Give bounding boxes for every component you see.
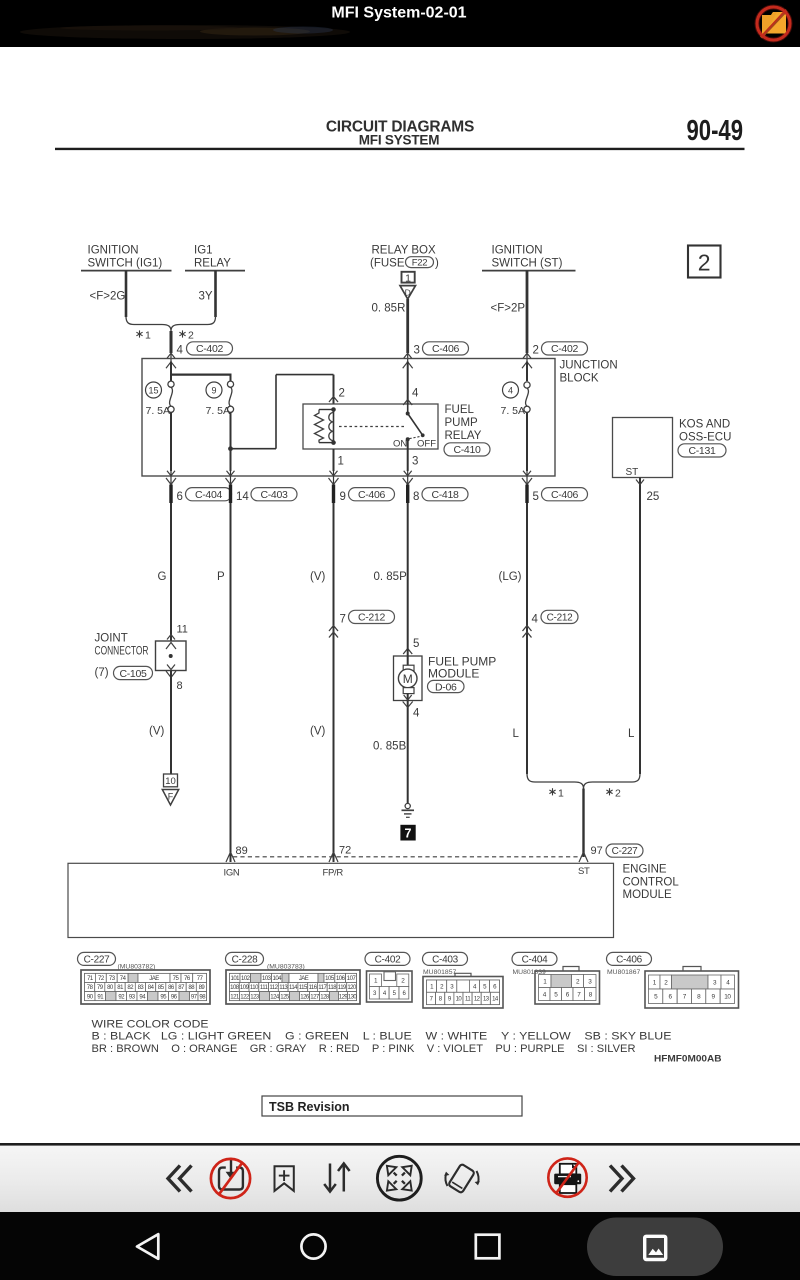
toolbar icon: print disabled: [548, 1158, 586, 1196]
connector stub 8 (C-418): [408, 485, 468, 504]
svg-text:B : BLACK LG : LIGHT GREEN: B : BLACK LG : LIGHT GREEN G : GREEN L :…: [92, 1031, 672, 1043]
svg-text:SWITCH (IG1): SWITCH (IG1): [88, 258, 163, 270]
svg-text:C-228: C-228: [232, 955, 258, 966]
wire P to ECM pin 89: [217, 503, 231, 862]
toolbar background: [0, 1143, 800, 1212]
connector label 97 (C-227): [591, 844, 644, 857]
bus wire inside block: [170, 362, 232, 382]
toolbar icon: rotate screen: [444, 1164, 480, 1194]
svg-text:101: 101: [230, 976, 240, 982]
toolbar icon: fit to screen: [377, 1156, 421, 1200]
svg-text:HFMF0M00AB: HFMF0M00AB: [654, 1054, 722, 1064]
svg-text:4: 4: [532, 614, 539, 626]
svg-text:5: 5: [533, 491, 539, 503]
page number 90-49: [687, 115, 744, 147]
wire from ignition switch ST, <F>2P: [491, 271, 528, 362]
ECM pin entries 89 IGN: [224, 845, 248, 879]
wire 0.85R: [372, 299, 408, 362]
engine control module label: [623, 864, 680, 902]
connector label 4 (C-402): [177, 342, 233, 357]
connector C-228 pin diagram: [226, 970, 360, 1004]
svg-text:G: G: [158, 571, 167, 583]
svg-text:OSS-ECU: OSS-ECU: [679, 432, 731, 444]
fuse 15 (7.5A): [146, 381, 175, 417]
ECM pin label ST: [578, 866, 590, 877]
svg-text:119: 119: [338, 985, 347, 991]
diode triangle D: [400, 286, 416, 299]
star note *2: [606, 787, 621, 799]
connector stub 14 (C-403): [231, 485, 298, 504]
svg-text:1: 1: [338, 456, 344, 468]
svg-text:118: 118: [328, 985, 337, 991]
svg-text:113: 113: [279, 985, 288, 991]
svg-text:MU801867: MU801867: [607, 969, 640, 976]
svg-text:8: 8: [177, 680, 183, 692]
svg-text:2: 2: [188, 330, 194, 342]
android navigation bar: [0, 1212, 800, 1280]
svg-text:IGNITION: IGNITION: [88, 245, 139, 257]
page header: MFI SYSTEM: [359, 133, 440, 148]
svg-text:112: 112: [269, 985, 278, 991]
svg-text:(7): (7): [95, 667, 109, 679]
svg-text:JAE: JAE: [149, 976, 159, 982]
svg-text:125: 125: [280, 994, 290, 1000]
chassis ground symbol: [402, 803, 415, 817]
svg-text:104: 104: [272, 976, 282, 982]
connector stub 5 (C-406): [527, 485, 588, 504]
connector C-404 label: [512, 952, 557, 975]
ECM dashed connector line: [233, 856, 581, 858]
wire label L right: [628, 728, 635, 740]
KOS and OSS-ECU box: [613, 418, 673, 479]
svg-text:115: 115: [299, 985, 308, 991]
toolbar icon: sort order: [324, 1163, 349, 1191]
wire fuse9 to pin 14 with junction node: [226, 412, 236, 484]
svg-text:9: 9: [211, 385, 216, 395]
relay box (fuse F22) label: [370, 245, 439, 270]
entry arrows at junction block top: [166, 353, 532, 368]
TSB revision box: [262, 1096, 522, 1116]
svg-text:C-403: C-403: [432, 955, 458, 966]
IG1 relay label: [185, 245, 245, 271]
header rule: [55, 148, 745, 150]
app title bar: [0, 0, 800, 47]
wire from IG1 relay, 3Y: [199, 271, 216, 317]
svg-text:72: 72: [339, 845, 351, 857]
svg-text:1: 1: [558, 787, 564, 799]
wire into junction block pin 4: [170, 331, 173, 362]
star note *1: [549, 787, 564, 799]
nav recents button: [476, 1235, 500, 1259]
svg-text:3: 3: [412, 456, 418, 468]
svg-text:2: 2: [615, 787, 621, 799]
svg-text:C-402: C-402: [196, 343, 224, 355]
svg-text:IGN: IGN: [224, 868, 240, 879]
svg-text:RELAY: RELAY: [445, 430, 482, 442]
wire (V) to ground 10: [149, 671, 171, 775]
document code HFMF0M00AB: [654, 1054, 722, 1064]
svg-text:117: 117: [318, 985, 327, 991]
svg-text:C-131: C-131: [688, 445, 716, 457]
svg-text:M: M: [403, 672, 413, 686]
connector C-403 pin diagram: [423, 973, 503, 1008]
svg-text:116: 116: [308, 985, 317, 991]
fuse 1 symbol: [402, 272, 415, 285]
brace joining *1 and *2 wires: [126, 317, 216, 332]
star note *1: [136, 330, 151, 342]
svg-text:WIRE COLOR CODE: WIRE COLOR CODE: [92, 1019, 209, 1031]
fuse 4 (7.5A): [501, 362, 531, 418]
page header: CIRCUIT DIAGRAMS: [326, 119, 474, 136]
svg-text:6: 6: [177, 491, 183, 503]
connector C-403 label: [423, 952, 468, 975]
wire 0.85P to fuel pump module: [374, 503, 408, 648]
svg-text:C-402: C-402: [551, 343, 579, 355]
svg-text:FP/R: FP/R: [323, 868, 344, 879]
svg-text:(V): (V): [310, 726, 326, 738]
toolbar icon: download disabled: [211, 1158, 250, 1198]
engine control module box: [68, 863, 614, 937]
branch wire from node to relay coil: [231, 375, 334, 449]
svg-text:(LG): (LG): [499, 571, 522, 583]
svg-text:107: 107: [347, 976, 357, 982]
wire 0.85B to ground: [373, 702, 420, 804]
connector C-406 pin diagram: [645, 967, 739, 1009]
svg-text:RELAY BOX: RELAY BOX: [372, 245, 436, 257]
svg-text:C-402: C-402: [375, 955, 401, 966]
svg-text:123: 123: [250, 994, 260, 1000]
svg-text:10: 10: [724, 994, 731, 1001]
ground terminal 10: [164, 774, 178, 787]
svg-text:109: 109: [240, 985, 250, 991]
svg-text:C-406: C-406: [432, 343, 460, 355]
KOS and OSS-ECU label: [678, 419, 731, 458]
nav back button: [137, 1234, 158, 1259]
svg-text:CONTROL: CONTROL: [623, 877, 680, 889]
joint connector exit arrows, pin 8: [166, 665, 183, 693]
relay switch contacts ON/OFF: [339, 404, 436, 450]
svg-text:5: 5: [413, 638, 419, 650]
svg-text:1: 1: [405, 272, 411, 284]
fuel pump relay box: [303, 404, 438, 449]
connector C-404 pin diagram: [535, 967, 600, 1005]
svg-text:JOINT: JOINT: [95, 633, 128, 645]
wire color code line 1: [92, 1031, 672, 1043]
svg-text:IGNITION: IGNITION: [492, 245, 543, 257]
svg-text:C-406: C-406: [616, 955, 642, 966]
svg-text:SWITCH (ST): SWITCH (ST): [492, 258, 563, 270]
wire fuse15 to pin 6: [166, 412, 176, 484]
svg-text:(V): (V): [310, 571, 326, 583]
joint connector entry arrows, pin 11: [166, 624, 188, 650]
svg-text:JAE: JAE: [299, 976, 309, 982]
ground reference marker 7: [400, 825, 415, 841]
ECM pin entries 72 FP/R: [323, 845, 352, 879]
svg-text:OFF: OFF: [417, 439, 436, 450]
toolbar icon: previous page: [168, 1166, 192, 1192]
connector label 3 (C-406): [414, 342, 469, 357]
connector C-402 pin diagram: [367, 971, 413, 1002]
svg-text:2: 2: [339, 388, 345, 400]
svg-text:PUMP: PUMP: [445, 417, 479, 429]
screenshot pill button: [587, 1218, 723, 1277]
relay pin 4 wire: [403, 362, 419, 406]
wire G to joint connector: [158, 503, 172, 641]
svg-text:8: 8: [413, 491, 419, 503]
svg-text:110: 110: [250, 985, 259, 991]
svg-text:FUEL: FUEL: [445, 404, 475, 416]
wire color code heading: [92, 1019, 209, 1031]
wire (V) FP/R to ECM pin 72: [310, 503, 334, 862]
svg-text:89: 89: [236, 845, 248, 857]
relay coil and resistor: [315, 407, 336, 445]
toolbar icon: next page: [610, 1166, 634, 1192]
svg-text:C-403: C-403: [260, 489, 288, 501]
wire (LG) to brace: [499, 503, 528, 774]
svg-text:3Y: 3Y: [199, 291, 213, 303]
svg-text:KOS AND: KOS AND: [679, 419, 730, 431]
svg-text:BR : BROWN O : ORANGE GR: BR : BROWN O : ORANGE GR : GRAY R : RED …: [92, 1043, 636, 1055]
svg-text:BLOCK: BLOCK: [560, 373, 599, 385]
connector C-227 pin diagram: [81, 970, 210, 1004]
nav home button: [301, 1234, 325, 1258]
svg-text:15: 15: [148, 385, 158, 395]
svg-text:MU801857: MU801857: [423, 969, 456, 976]
svg-text:120: 120: [347, 985, 357, 991]
fuse 9 (7.5A): [206, 381, 234, 417]
svg-text:L: L: [513, 728, 520, 740]
svg-text:114: 114: [289, 985, 298, 991]
wire into relay coil pin 2: [329, 375, 345, 404]
wire ST to ECM pin 97: [579, 789, 588, 863]
sheet marker box 2: [688, 246, 721, 278]
svg-text:128: 128: [320, 994, 330, 1000]
connector marker 4 (C-212): [523, 610, 579, 637]
connector stub 9 (C-406): [334, 485, 395, 504]
ground triangle F: [162, 790, 178, 806]
svg-text:122: 122: [240, 994, 250, 1000]
connector C-402 label: [365, 952, 410, 965]
svg-text:106: 106: [336, 976, 346, 982]
svg-text:ST: ST: [626, 467, 639, 478]
svg-text:7. 5A: 7. 5A: [206, 405, 231, 417]
svg-text:IG1: IG1: [194, 245, 213, 257]
svg-text:90-49: 90-49: [687, 115, 744, 147]
svg-text:<F>2P: <F>2P: [491, 303, 526, 315]
svg-text:105: 105: [325, 976, 335, 982]
svg-text:CONNECTOR: CONNECTOR: [95, 646, 149, 658]
svg-text:F: F: [168, 792, 174, 802]
connector C-227 label: [78, 952, 156, 970]
svg-text:4: 4: [413, 708, 420, 720]
svg-text:7: 7: [340, 614, 346, 626]
svg-text:C-404: C-404: [522, 955, 548, 966]
KOS ECU pin 25 wire: [636, 478, 659, 775]
star note *2: [179, 330, 194, 342]
svg-text:C-406: C-406: [551, 489, 579, 501]
svg-text:(FUSE: (FUSE: [370, 258, 405, 270]
svg-text:126: 126: [300, 994, 310, 1000]
wire label L left: [513, 728, 520, 740]
svg-text:124: 124: [270, 994, 280, 1000]
svg-text:C-418: C-418: [431, 489, 459, 501]
svg-text:127: 127: [310, 994, 320, 1000]
svg-text:2: 2: [698, 250, 711, 276]
wire from ignition switch IG1, <F>2G: [90, 271, 127, 317]
svg-text:9: 9: [340, 491, 346, 503]
svg-text:F22: F22: [412, 258, 427, 269]
svg-text:111: 111: [260, 985, 269, 991]
ignition switch (ST) label: [482, 245, 576, 271]
connector C-406 label: [607, 952, 652, 975]
svg-text:C-227: C-227: [612, 846, 638, 857]
svg-text:C-105: C-105: [119, 668, 147, 680]
svg-text:121: 121: [230, 994, 240, 1000]
svg-text:4: 4: [177, 345, 184, 357]
svg-text:C-404: C-404: [195, 489, 223, 501]
svg-text:97: 97: [591, 845, 603, 857]
svg-text:130: 130: [348, 994, 358, 1000]
svg-text:11: 11: [177, 624, 188, 636]
wire fuse4 to pin 5: [522, 412, 532, 484]
svg-text:D-06: D-06: [435, 681, 457, 693]
svg-text:108: 108: [230, 985, 240, 991]
joint connector label: [95, 633, 153, 680]
svg-text:4: 4: [508, 385, 513, 395]
svg-text:MFI SYSTEM: MFI SYSTEM: [359, 133, 440, 148]
svg-text:7: 7: [405, 827, 412, 841]
svg-text:JUNCTION: JUNCTION: [560, 360, 618, 372]
svg-text:MODULE: MODULE: [623, 889, 673, 901]
svg-text:25: 25: [647, 491, 660, 503]
svg-text:7. 5A: 7. 5A: [146, 405, 171, 417]
svg-text:3: 3: [414, 345, 420, 357]
svg-text:L: L: [628, 728, 635, 740]
svg-text:0. 85R: 0. 85R: [372, 303, 406, 315]
svg-text:0. 85P: 0. 85P: [374, 571, 408, 583]
svg-text:RELAY: RELAY: [194, 258, 231, 270]
svg-text:ST: ST: [578, 866, 590, 877]
svg-text:P: P: [217, 571, 225, 583]
svg-text:102: 102: [241, 976, 251, 982]
svg-text:D: D: [405, 287, 411, 297]
svg-text:<F>2G: <F>2G: [90, 291, 126, 303]
svg-text:2: 2: [533, 345, 539, 357]
connector label 2 (C-402): [533, 342, 588, 357]
junction block outline: [142, 359, 555, 477]
svg-text:ENGINE: ENGINE: [623, 864, 667, 876]
wire color code line 2: [92, 1043, 636, 1055]
svg-text:10: 10: [165, 776, 176, 787]
relay pin 3 wire: [403, 439, 419, 484]
svg-text:C-410: C-410: [453, 444, 481, 456]
svg-text:4: 4: [412, 388, 419, 400]
joint connector box (C-105): [156, 641, 187, 671]
junction block label: [560, 360, 618, 385]
no-export folder icon: [757, 7, 790, 40]
svg-text:14: 14: [236, 491, 249, 503]
svg-text:C-212: C-212: [547, 613, 573, 624]
svg-text:TSB Revision: TSB Revision: [269, 1100, 350, 1114]
svg-text:103: 103: [262, 976, 272, 982]
connector stub 6 (C-404): [171, 485, 232, 504]
app title text: [331, 5, 466, 22]
svg-text:(V): (V): [149, 726, 165, 738]
brace joining *1 and *2 L wires: [527, 774, 640, 789]
svg-text:ON: ON: [393, 439, 407, 450]
svg-text:C-212: C-212: [358, 612, 386, 624]
svg-text:C-406: C-406: [358, 489, 386, 501]
svg-text:MFI System-02-01: MFI System-02-01: [331, 5, 466, 22]
svg-text:1: 1: [145, 330, 151, 342]
relay pin 1 wire: [329, 449, 344, 485]
fuel pump module box (D-06): [394, 648, 423, 708]
svg-text:MODULE: MODULE: [428, 667, 479, 681]
connector marker 7 (C-212): [329, 610, 395, 637]
fuel pump module label: [428, 655, 497, 694]
toolbar icon: add bookmark: [275, 1166, 294, 1191]
svg-text:): ): [435, 258, 439, 270]
ignition switch (IG1) label: [81, 245, 172, 271]
fuel pump relay label: [444, 404, 490, 456]
svg-text:7. 5A: 7. 5A: [501, 405, 526, 417]
svg-text:C-227: C-227: [84, 955, 110, 966]
connector C-228 label: [226, 952, 305, 970]
arrow into fuel pump module pin 5: [403, 638, 419, 654]
svg-text:0. 85B: 0. 85B: [373, 741, 407, 753]
